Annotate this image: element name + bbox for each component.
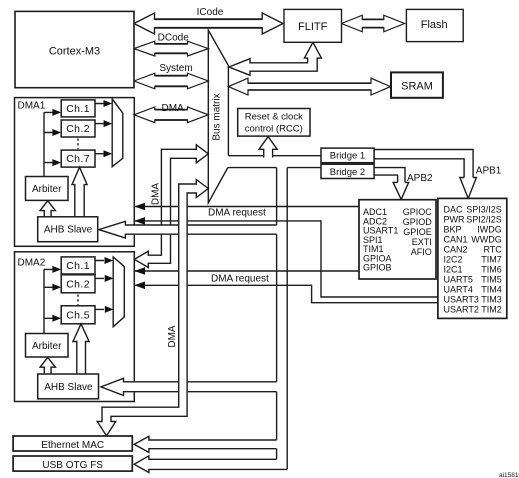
wire AHB system bus channel top: [228, 155, 321, 157]
svg-text:Bridge 2: Bridge 2: [330, 167, 365, 178]
svg-text:Bus matrix: Bus matrix: [211, 93, 222, 140]
DMA2 Ch.5 up arrow: [73, 324, 89, 374]
Bridge 1 box: [321, 148, 374, 163]
svg-text:AHB Slave: AHB Slave: [44, 225, 93, 236]
svg-text:Ch.5: Ch.5: [66, 309, 90, 321]
APB1 arrowhead: [460, 178, 477, 199]
DMA2 Ch.2 box: [61, 275, 95, 293]
DMA bus arrow DMA1-to-busmatrix: [134, 107, 208, 123]
DMA1 Ch.1 box: [61, 100, 95, 117]
DMA2 AHB Slave box: [38, 374, 99, 399]
svg-text:SPI2/I2S: SPI2/I2S: [466, 215, 502, 225]
svg-text:GPIOE: GPIOE: [403, 227, 432, 237]
svg-text:Flash: Flash: [421, 19, 448, 31]
DMA2 block box: [15, 252, 135, 402]
svg-text:WWDG: WWDG: [471, 235, 502, 245]
svg-text:UART5: UART5: [444, 275, 473, 285]
svg-text:RTC: RTC: [483, 245, 502, 255]
svg-text:DMA request: DMA request: [208, 207, 266, 218]
svg-text:ai15810: ai15810: [499, 472, 519, 478]
svg-text:USART3: USART3: [444, 295, 479, 305]
DMA bus DMA2-to-busmatrix (bent double arrow, bottom layer): [134, 145, 208, 268]
wire tap to USB OTG FS: [134, 456, 287, 473]
svg-text:GPIOD: GPIOD: [403, 217, 433, 227]
svg-text:TIM6: TIM6: [481, 265, 502, 275]
svg-text:GPIOC: GPIOC: [403, 207, 433, 217]
svg-text:DMA: DMA: [151, 183, 162, 206]
svg-text:EXTI: EXTI: [412, 237, 432, 247]
ICode bus arrow: [134, 13, 283, 34]
SRAM box: [391, 72, 443, 97]
wire RCC feed arrow: [259, 137, 277, 158]
svg-text:Ch.7: Ch.7: [66, 153, 90, 165]
DMA2 arbiter arrow: [40, 357, 55, 374]
svg-text:DMA: DMA: [167, 325, 178, 348]
APB2 arrowhead: [393, 182, 409, 199]
wire AHB system bus channel bottom: [228, 167, 277, 169]
Ethernet MAC box: [13, 436, 132, 451]
svg-text:BKP: BKP: [444, 225, 462, 235]
DMA1 AHB Slave box: [38, 217, 98, 242]
DMA bus Ethernet-to-busmatrix (bent double arrow): [97, 180, 208, 437]
FLITF box: [284, 9, 342, 42]
FLITF-Flash bus arrow: [342, 15, 405, 32]
svg-text:System: System: [159, 63, 192, 74]
DMA1 funnel: [112, 99, 123, 167]
svg-text:GPIOB: GPIOB: [363, 263, 392, 273]
svg-text:FLITF: FLITF: [298, 21, 328, 33]
Bridge 2 box: [321, 164, 374, 178]
DMA1 Ch.7 box: [61, 150, 95, 167]
svg-text:DAC: DAC: [444, 205, 464, 215]
svg-text:APB1: APB1: [476, 166, 502, 177]
svg-text:Ch.2: Ch.2: [66, 123, 90, 135]
USB OTG FS box: [13, 456, 132, 471]
svg-text:DMA: DMA: [161, 103, 184, 114]
DMA2 Arbiter box: [26, 334, 69, 358]
DMA2 Ch.5 box: [61, 306, 95, 324]
Flash box: [406, 9, 463, 41]
svg-text:Ch.1: Ch.1: [66, 103, 90, 115]
svg-text:DCode: DCode: [158, 33, 190, 44]
svg-text:Reset & clock: Reset & clock: [245, 112, 303, 123]
svg-text:IWDG: IWDG: [477, 225, 502, 235]
wire Bridge2 to APB2: [374, 168, 405, 183]
wire Bridge1 to APB1: [374, 150, 473, 178]
svg-text:TIM3: TIM3: [481, 295, 502, 305]
bus matrix: [208, 30, 228, 203]
svg-text:CAN2: CAN2: [444, 245, 468, 255]
wire system bus vertical right: [286, 168, 288, 470]
wire tap to Ethernet MAC: [134, 436, 276, 452]
svg-text:TIM4: TIM4: [481, 285, 502, 295]
SRAM bus arrow: [228, 78, 390, 95]
svg-text:Ch.2: Ch.2: [66, 278, 90, 290]
svg-text:TIM5: TIM5: [481, 275, 502, 285]
DMA1 Ch outputs to funnel: [95, 104, 104, 154]
DMA2 Ch.1 box: [61, 257, 95, 274]
System bus arrow: [134, 73, 208, 89]
wire DMA request APB2-to-DMA1: [134, 206, 359, 208]
DMA1 channel feed wire: [44, 112, 53, 176]
svg-text:Arbiter: Arbiter: [32, 184, 62, 195]
svg-text:ICode: ICode: [197, 7, 224, 18]
svg-text:Ch.1: Ch.1: [66, 260, 90, 272]
wire tap to DMA1 AHB slave: [99, 221, 277, 238]
svg-text:DMA1: DMA1: [18, 101, 46, 112]
wire DMA request APB2-to-DMA2: [134, 270, 359, 272]
Cortex-M3 box: [15, 11, 134, 87]
svg-text:APB2: APB2: [407, 173, 433, 184]
svg-text:Cortex-M3: Cortex-M3: [49, 46, 100, 58]
svg-text:AFIO: AFIO: [411, 247, 432, 257]
DMA1 Ch.2 box: [61, 120, 95, 137]
DMA1 arbiter arrow: [40, 201, 55, 217]
svg-text:CAN1: CAN1: [444, 235, 468, 245]
svg-text:DMA request: DMA request: [211, 274, 269, 285]
DMA1 Ch.7 up arrow: [72, 167, 87, 217]
DMA2 funnel: [113, 257, 124, 327]
svg-text:SRAM: SRAM: [401, 80, 433, 92]
FLITF-to-busmatrix bent bus arrow: [229, 42, 322, 75]
APB2 peripherals box: [359, 200, 436, 279]
svg-text:I2C2: I2C2: [444, 255, 463, 265]
svg-text:Arbiter: Arbiter: [32, 341, 62, 352]
wire tap to DMA2 AHB slave: [101, 378, 277, 395]
svg-text:DMA2: DMA2: [18, 258, 46, 269]
wire DMA request APB1-to-DMA1: [134, 221, 438, 297]
DMA1 block box: [15, 98, 135, 247]
svg-text:USART2: USART2: [444, 305, 479, 315]
Reset and clock control RCC box: [238, 109, 310, 137]
wire system bus vertical left: [276, 168, 278, 460]
svg-text:PWR: PWR: [444, 215, 465, 225]
svg-text:Bridge 1: Bridge 1: [330, 151, 365, 162]
DMA1 dashed line: [77, 139, 79, 150]
svg-text:Ethernet MAC: Ethernet MAC: [41, 440, 104, 451]
svg-text:control (RCC): control (RCC): [245, 124, 303, 135]
svg-text:TIM2: TIM2: [481, 305, 502, 315]
APB1 peripherals box: [438, 198, 507, 318]
DMA1 Arbiter box: [26, 177, 69, 201]
DMA2 dashed line: [77, 295, 79, 306]
svg-text:TIM7: TIM7: [481, 255, 502, 265]
svg-text:I2C1: I2C1: [444, 265, 463, 275]
wire DMA request APB1-to-DMA2: [134, 285, 438, 302]
svg-text:SPI3/I2S: SPI3/I2S: [466, 205, 502, 215]
svg-text:USB OTG FS: USB OTG FS: [42, 460, 103, 471]
DMA2 channel feed wire: [44, 269, 53, 333]
svg-text:AHB Slave: AHB Slave: [44, 382, 93, 393]
svg-text:UART4: UART4: [444, 285, 473, 295]
DMA2 Ch outputs to funnel: [95, 261, 104, 310]
DCode bus arrow: [134, 41, 208, 56]
